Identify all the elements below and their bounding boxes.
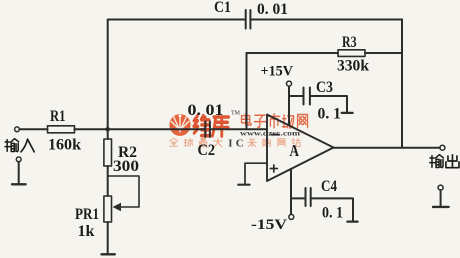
watermark row 全球最大IC采购网站 — [170, 138, 301, 150]
svg-text:C2: C2 — [198, 142, 216, 159]
watermark big text 维库 — [194, 116, 229, 136]
potentiometer PR1 — [104, 196, 112, 222]
resistor R2 — [104, 139, 112, 166]
wire: R2 to PR1 — [107, 166, 109, 196]
op-amp minus sign — [272, 134, 280, 136]
wire: R3 left — [247, 52, 339, 54]
svg-text:300: 300 — [113, 158, 139, 175]
svg-text:1k: 1k — [78, 223, 95, 240]
wire: junction up to top rail — [107, 20, 109, 130]
input ground terminal — [16, 157, 21, 162]
svg-text:0. 01: 0. 01 — [257, 1, 288, 18]
wire: PR1 wiper loop — [108, 176, 139, 207]
svg-text:R1: R1 — [50, 108, 66, 125]
wire: +15V to op-amp — [288, 87, 290, 126]
PR1 wiper arrowhead — [113, 203, 122, 212]
op-amp A — [267, 115, 334, 182]
svg-text:TM: TM — [231, 111, 241, 117]
ground (output) — [433, 206, 449, 208]
label 输入 (input) — [5, 139, 34, 152]
ground (C3) — [342, 112, 353, 114]
svg-text:C4: C4 — [321, 178, 337, 195]
capacitor C2 — [205, 122, 210, 138]
wire: R3 right — [365, 52, 402, 54]
capacitor C1 — [246, 10, 251, 29]
svg-text:C3: C3 — [316, 79, 333, 96]
wire: C2 to op-amp inverting input — [210, 128, 267, 130]
input terminal — [15, 127, 20, 132]
wire: input ground stub — [18, 162, 20, 184]
wire: -15V to C4 — [291, 197, 305, 199]
resistor R1 — [48, 126, 75, 133]
svg-text:-15V: -15V — [251, 217, 288, 233]
wire: junction down to R2 — [107, 129, 109, 139]
wire: top rail right of C1 — [251, 19, 402, 21]
ground (PR1) — [102, 253, 115, 255]
svg-text:0. 1: 0. 1 — [318, 106, 342, 123]
wire: R1 to C2 — [75, 128, 206, 130]
wire: C4 right bend — [311, 198, 353, 221]
ground (op-amp +) — [238, 184, 249, 186]
svg-text:I: I — [228, 138, 232, 150]
svg-text:C: C — [236, 138, 244, 150]
watermark logo (dzsc seal) — [169, 114, 190, 136]
wire: right vertical (output node) — [401, 20, 403, 148]
svg-text:+15V: +15V — [261, 64, 294, 80]
svg-text:160k: 160k — [48, 137, 81, 154]
wire: PR1 to ground — [107, 222, 109, 254]
op-amp plus sign — [270, 165, 277, 172]
capacitor C3 — [304, 88, 310, 105]
wire: ground stub at non-inverting input — [245, 163, 267, 184]
svg-text:C1: C1 — [214, 0, 231, 16]
wire: feedback vertical to R3 — [246, 53, 248, 129]
svg-text:0. 1: 0. 1 — [322, 205, 343, 222]
capacitor C4 — [306, 188, 311, 206]
label 输出 (output) — [430, 155, 459, 168]
+15V terminal — [287, 81, 292, 86]
svg-text:0. 01: 0. 01 — [188, 102, 224, 119]
wire: C3 right bend — [310, 96, 347, 113]
wire: -15V from op-amp — [290, 169, 292, 214]
svg-text:PR1: PR1 — [75, 206, 99, 223]
output terminal — [440, 145, 445, 150]
svg-text:330k: 330k — [337, 58, 369, 75]
ground (C4) — [347, 221, 357, 223]
wire: op-amp output — [334, 147, 440, 149]
-15V terminal — [289, 214, 294, 219]
ground (input) — [12, 183, 26, 185]
wire: output ground stub — [440, 190, 442, 206]
wire: +15V to C3 — [289, 95, 303, 97]
svg-text:A: A — [290, 141, 300, 160]
svg-text:R3: R3 — [342, 34, 357, 51]
wire: input to R1 — [19, 128, 47, 130]
output ground terminal — [438, 185, 443, 190]
watermark text 电子市场网 — [242, 114, 308, 128]
resistor R3 — [338, 50, 365, 57]
wire: top rail left of C1 — [108, 19, 246, 21]
junction node — [105, 127, 110, 132]
